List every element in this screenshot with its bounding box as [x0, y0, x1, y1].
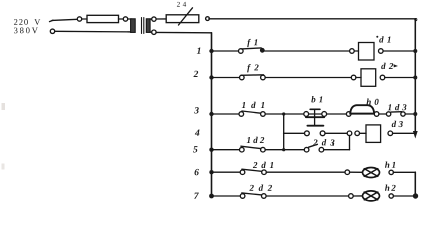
label f2 [247, 64, 258, 72]
junction left bus rung1 [209, 49, 213, 53]
terminal circle before transformer [123, 17, 127, 21]
contact 2d3 blade [309, 144, 318, 147]
lamp h1 right terminal [389, 170, 393, 174]
terminal circle secondary top [152, 17, 156, 21]
coil d3 left terminal [355, 131, 360, 136]
rung number 7 [194, 193, 199, 199]
wire [360, 132, 367, 134]
contact 1d2 right terminal [261, 147, 266, 152]
relay coil d1 [359, 43, 375, 61]
label 1d3 [388, 104, 407, 110]
wire [354, 50, 358, 52]
contact 2d1 right terminal [262, 170, 267, 175]
buzzer h0 left terminal [346, 112, 351, 117]
label b1 [311, 96, 322, 102]
junction left bus rung3 [209, 112, 213, 116]
label f1 [247, 39, 257, 47]
wire rung5 left [212, 149, 240, 151]
transformer T primary winding [131, 19, 136, 33]
label 2d1 [253, 162, 273, 168]
junction left bus rung5 [209, 148, 213, 152]
label 1d2 [247, 137, 264, 143]
junction dropper top [282, 112, 285, 115]
lamp h1 left terminal [345, 170, 350, 175]
label 380 V [14, 28, 38, 34]
wire to fuse 24 [156, 18, 166, 20]
fuse 24 [166, 8, 199, 25]
wire rung2 middle [265, 77, 351, 79]
wire rung6 right [393, 171, 415, 173]
contact f1 blade [242, 48, 262, 49]
rung number 6 [195, 169, 199, 175]
contact 2d3 left terminal [304, 147, 309, 152]
wire [356, 77, 361, 79]
wire to fuse e1 [82, 18, 87, 20]
wire L2 input 380V [55, 30, 132, 33]
contact 2d1 blade [242, 169, 263, 171]
pushbutton b1 right terminal [322, 112, 327, 117]
label 2d2 [249, 185, 272, 191]
wire L1 input 220V [50, 19, 78, 21]
label h1 [385, 162, 395, 168]
scan smudge left margin upper [2, 103, 6, 110]
label h2 [385, 185, 396, 191]
pushbutton b1 NO right terminal [320, 131, 325, 136]
wire rung5 right [324, 149, 350, 151]
pushbutton b1 left terminal [304, 112, 309, 117]
right bracket rung6 to rung7 [414, 172, 416, 196]
coil d2 right terminal [380, 75, 385, 80]
wire rung3 right [405, 113, 415, 115]
rung number 4 [195, 130, 200, 136]
contact f2 blade [241, 74, 264, 77]
contact 1d2 blade [241, 146, 261, 148]
label 220 V [14, 19, 40, 25]
pushbutton b1 NO bridge [307, 125, 323, 127]
wire [350, 171, 363, 173]
contact 1d3 right terminal [401, 112, 405, 116]
junction right bus rung3 [413, 112, 417, 116]
wire rung4 [325, 132, 347, 134]
wire rung5 middle [265, 149, 304, 151]
wire secondary bottom [150, 31, 152, 33]
coil d1 right terminal [379, 49, 384, 54]
coil d2 left terminal [351, 75, 356, 80]
wire under buzzer [351, 113, 374, 115]
contact 1d1 left terminal [239, 112, 244, 117]
relay coil d2 [361, 69, 376, 87]
transformer T core [142, 18, 144, 34]
wire rung7 right [393, 195, 415, 197]
fuse e1 [87, 15, 119, 22]
label 1d1 [242, 102, 264, 108]
pushbutton b1 NC bridge [306, 116, 324, 118]
contact 2d2 blade [242, 193, 263, 195]
label d2 [381, 63, 398, 69]
wire rung3 [379, 113, 387, 115]
junction left bus rung2 [209, 75, 213, 79]
right bus arrow end [413, 131, 418, 139]
wire rung2 right [385, 77, 416, 79]
label d1 [376, 36, 390, 43]
contact f1 right terminal dot [260, 48, 264, 52]
junction right bus rung1 [413, 49, 417, 53]
pushbutton b1 cap [310, 108, 320, 110]
contact 1d1 blade [242, 111, 262, 113]
junction left bus rung6 [209, 170, 213, 174]
contact 2d3 right terminal [319, 147, 324, 152]
buzzer h0 [350, 105, 374, 113]
wire fuse to terminal [119, 18, 124, 20]
lamp h2 [363, 191, 380, 201]
rung number 2 [193, 71, 198, 77]
contact 2d2 left terminal [240, 194, 245, 199]
contact 1d2 left terminal [240, 147, 245, 152]
left bus [211, 33, 213, 196]
lamp h2 right terminal [389, 194, 393, 198]
wire secondary top [150, 18, 152, 20]
contact 2d1 left terminal [240, 170, 245, 175]
buzzer h0 right terminal [374, 112, 379, 117]
junction terminal rung4 [347, 131, 352, 136]
wire bottom feeder to left bus [156, 31, 211, 33]
label h0 [366, 99, 378, 105]
label d3 [392, 121, 403, 127]
junction right rung7 [413, 193, 418, 198]
lamp h2 left terminal [349, 194, 354, 199]
rung number 3 [194, 107, 199, 113]
wire rung3 left [212, 113, 240, 115]
transformer T secondary winding [146, 19, 150, 33]
wire rung3 to junction [265, 113, 303, 115]
value label 24 [177, 2, 186, 7]
wire rung6 left [212, 171, 241, 173]
wire [353, 195, 362, 197]
lamp h1 [363, 168, 380, 178]
wire rung3 [327, 113, 347, 115]
wire rung1 middle [264, 50, 349, 52]
wire rung6 middle [266, 171, 345, 173]
wire rung1 left [212, 50, 239, 52]
riser wire rung5 to rung4 [349, 136, 351, 150]
coil d1 left terminal [350, 49, 355, 54]
dropper wire rung3 to rung5 [283, 114, 285, 150]
pushbutton b1 NO left terminal [305, 131, 310, 136]
wire rung1 right [383, 50, 415, 52]
contact 1d3 left terminal [386, 112, 390, 116]
contact f1 left terminal [239, 49, 244, 54]
terminal circle L1 [77, 17, 81, 21]
wire rung4 right [393, 132, 416, 134]
junction dropper bottom [282, 148, 285, 151]
label 2d3 [313, 139, 334, 145]
rung number 5 [193, 146, 197, 152]
wire rung7 middle [266, 195, 349, 197]
wire between b1 contacts [308, 113, 322, 115]
wire rung2 left [212, 77, 240, 79]
wire rung7 left [212, 195, 241, 197]
relay coil d3 [366, 125, 381, 142]
contact f2 right terminal [261, 75, 266, 80]
wire top feeder to right bus [209, 18, 415, 20]
terminal circle after fuse 24 [206, 17, 210, 21]
junction left bus rung7 [209, 194, 214, 199]
contact 1d1 right terminal [261, 112, 266, 117]
wire rung4 from dropper [284, 132, 305, 134]
terminal circle L2 [50, 29, 54, 33]
wire to transformer primary [128, 18, 132, 20]
contact 1d3 blade [391, 111, 402, 113]
contact 2d2 right terminal [262, 194, 267, 199]
rung number 1 [197, 48, 201, 54]
contact f2 left terminal [240, 75, 245, 80]
corner loop top right [415, 19, 417, 21]
junction right bus rung2 [413, 76, 417, 80]
scan smudge left margin lower [2, 164, 5, 170]
pushbutton b1 plunger [314, 109, 316, 125]
right bus [414, 19, 416, 132]
terminal circle secondary bottom [152, 30, 156, 34]
coil d3 right terminal [388, 131, 393, 136]
